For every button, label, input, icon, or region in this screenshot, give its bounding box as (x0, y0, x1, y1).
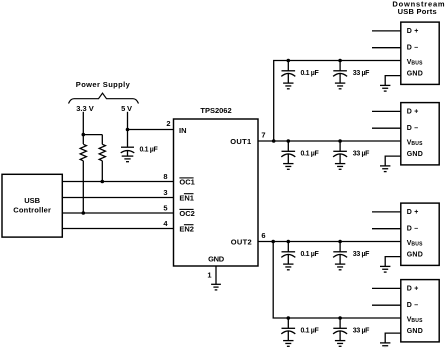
svg-text:USB Ports: USB Ports (398, 7, 437, 16)
block: USB Controller (2, 174, 62, 237)
svg-text:Controller: Controller (13, 206, 51, 215)
junction: R1 to OC2 (82, 211, 86, 215)
wire: dropper to port 4 VBUS (273, 242, 401, 319)
ground: port 1 (380, 85, 390, 91)
svg-text:D –: D – (407, 226, 419, 233)
svg-text:GND: GND (407, 71, 423, 78)
svg-text:6: 6 (261, 231, 265, 240)
capacitor 0.1uF port 3 (281, 240, 295, 270)
svg-text:GND: GND (208, 255, 225, 264)
wire: D- stub port 1 (372, 47, 401, 49)
svg-text:D +: D + (407, 109, 419, 116)
svg-text:0.1 µF: 0.1 µF (140, 147, 159, 154)
svg-text:5 V: 5 V (121, 104, 132, 113)
capacitor C1 0.1uF input bypass (121, 147, 135, 162)
junction: OUT2 dropper (271, 240, 275, 244)
svg-text:3: 3 (163, 188, 167, 197)
op-amp/IC U1 TPS2062 (174, 119, 259, 266)
svg-text:8: 8 (163, 172, 167, 181)
svg-text:2: 2 (166, 119, 170, 128)
wire: 5V down to junction (127, 112, 129, 147)
svg-text:VBUS: VBUS (407, 316, 423, 323)
capacitor 0.1uF port 2 (281, 139, 295, 169)
svg-text:GND: GND (407, 252, 423, 259)
connector: downstream USB port 4 (401, 280, 439, 342)
resistor R1 (pull-up on OC2) (80, 144, 86, 161)
svg-text:0.1 µF: 0.1 µF (301, 328, 320, 335)
connector: downstream USB port 1 (401, 22, 439, 84)
connector: downstream USB port 3 (401, 203, 439, 265)
junction: R2 to OC1 (101, 180, 105, 184)
wire: OUT1 pin 7 rail to port 2 VBUS (258, 140, 401, 142)
svg-text:0.1 µF: 0.1 µF (301, 70, 320, 77)
svg-text:OUT2: OUT2 (231, 238, 252, 247)
capacitor 0.1uF port 4 (281, 316, 295, 346)
wire: riser to port 1 VBUS (274, 61, 401, 142)
junction: OUT1 riser (272, 139, 276, 143)
wire: GND hook port 2 (385, 156, 401, 166)
pin label EN2 (active low) (179, 224, 194, 233)
svg-text:TPS2062: TPS2062 (200, 106, 231, 115)
wire: USB controller to OC2 pin 5 (62, 212, 173, 214)
wire: D+ stub port 1 (372, 30, 401, 32)
svg-text:D –: D – (407, 45, 419, 52)
svg-text:33 µF: 33 µF (353, 70, 370, 77)
svg-text:33 µF: 33 µF (353, 251, 370, 258)
wire: D- stub port 2 (372, 127, 401, 129)
svg-text:GND: GND (407, 151, 423, 158)
capacitor 33uF port 4 (333, 316, 347, 346)
wire: D+ stub port 2 (372, 110, 401, 112)
svg-text:0.1 µF: 0.1 µF (301, 251, 320, 258)
svg-text:GND: GND (407, 328, 423, 335)
capacitor 33uF port 1 (333, 59, 347, 89)
wire: OUT2 pin 6 rail to port 3 VBUS (258, 241, 401, 243)
svg-text:OUT1: OUT1 (230, 137, 251, 146)
svg-text:D –: D – (407, 302, 419, 309)
capacitor 33uF port 3 (333, 240, 347, 270)
svg-text:D +: D + (407, 28, 419, 35)
svg-text:USB: USB (24, 196, 40, 205)
svg-text:3.3 V: 3.3 V (76, 104, 94, 113)
wire: USB controller to EN2 pin 4 (62, 228, 173, 230)
svg-text:1: 1 (207, 271, 211, 280)
wire: D- stub port 3 (372, 228, 401, 230)
wire: 3.3V down to junction (82, 112, 84, 144)
wire: GND hook port 1 (385, 76, 401, 86)
svg-text:5: 5 (163, 204, 167, 213)
connector: downstream USB port 2 (401, 103, 439, 165)
svg-text:7: 7 (261, 130, 265, 139)
wire: R2 bottom to OC1 line (101, 161, 103, 182)
svg-text:EN1: EN1 (179, 193, 194, 202)
svg-text:OC2: OC2 (179, 209, 194, 218)
wire: D- stub port 4 (372, 304, 401, 306)
wire: junction to R2 top (83, 134, 102, 136)
ground: port 2 (380, 166, 390, 172)
pin label OC1 (active low) (179, 177, 194, 186)
pin label EN1 (active low) (179, 193, 194, 202)
ground: port 4 (380, 343, 390, 348)
pin label OC2 (active low) (179, 209, 194, 218)
wire: D+ stub port 4 (372, 287, 401, 289)
svg-text:4: 4 (163, 219, 168, 228)
svg-text:Power Supply: Power Supply (76, 80, 131, 89)
wire: GND pin 1 (215, 266, 217, 284)
wire: D+ stub port 3 (372, 211, 401, 213)
junction: 5V split (126, 128, 130, 132)
svg-text:33 µF: 33 µF (353, 151, 370, 158)
svg-text:VBUS: VBUS (407, 59, 423, 66)
svg-text:D –: D – (407, 125, 419, 132)
node: Downstream USB Ports title (392, 0, 445, 16)
svg-text:D +: D + (407, 209, 419, 216)
label USB Controller (13, 196, 51, 215)
resistor R2 (pull-up on OC1) (99, 144, 105, 161)
svg-text:EN2: EN2 (179, 224, 194, 233)
capacitor 33uF port 2 (333, 139, 347, 169)
svg-text:D +: D + (407, 286, 419, 293)
junction: 3.3V split (82, 133, 86, 137)
wire: USB controller to OC1 pin 8 (62, 181, 173, 183)
wire: R1 bottom to OC2 line (82, 161, 84, 213)
wire: R2 top lead (101, 135, 103, 145)
wire: USB controller to EN1 pin 3 (62, 197, 173, 199)
wire: GND hook port 4 (385, 333, 401, 343)
ground: IC GND (211, 284, 221, 290)
svg-text:0.1 µF: 0.1 µF (301, 151, 320, 158)
svg-text:VBUS: VBUS (407, 139, 423, 146)
ground: port 3 (380, 266, 390, 272)
brace over power supply (69, 93, 139, 103)
svg-text:VBUS: VBUS (407, 240, 423, 247)
svg-text:OC1: OC1 (179, 177, 194, 186)
wire: 5V to IN pin 2 (128, 129, 174, 131)
wire: GND hook port 3 (385, 257, 401, 267)
capacitor 0.1uF port 1 (281, 59, 295, 89)
svg-text:IN: IN (179, 126, 187, 135)
svg-text:33 µF: 33 µF (353, 328, 370, 335)
